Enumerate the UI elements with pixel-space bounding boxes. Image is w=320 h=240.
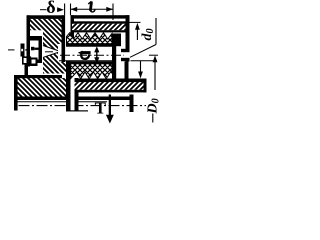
svg-text:T: T	[95, 99, 107, 118]
svg-text:δ: δ	[46, 0, 55, 17]
